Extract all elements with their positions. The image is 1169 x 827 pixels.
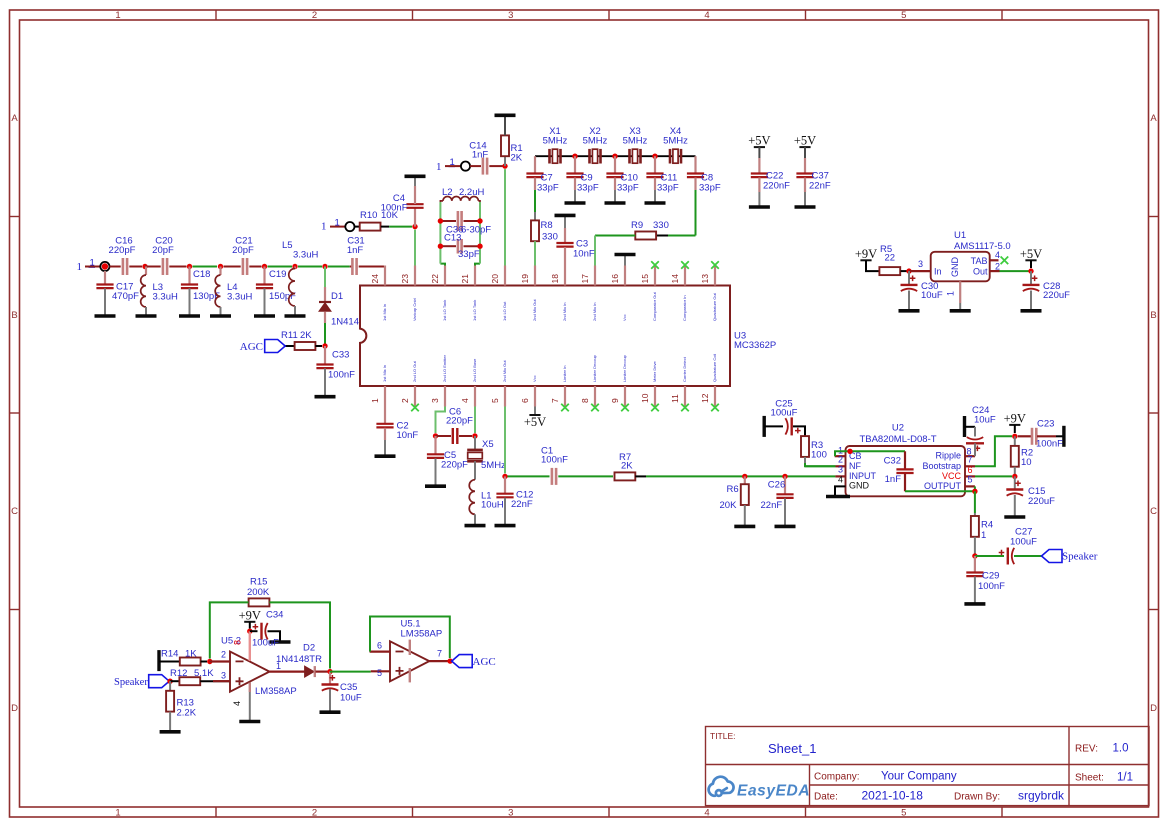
svg-text:1: 1 [77,261,83,273]
svg-text:2: 2 [312,808,317,819]
U3 pin 8 [594,386,596,407]
wire pin1 hook to C32 [835,451,905,456]
svg-text:R15: R15 [250,577,267,588]
svg-text:10: 10 [1021,457,1032,468]
U3 pin 5 [504,386,506,407]
capacitor C7 33pF [534,156,536,173]
node junction [322,343,327,348]
svg-text:5: 5 [901,808,906,819]
svg-text:Bootstrap: Bootstrap [922,461,961,471]
svg-text:Quadrature Coil: Quadrature Coil [712,354,717,382]
svg-text:18: 18 [550,274,560,284]
svg-text:B: B [1150,310,1156,321]
svg-text:AMS1117-5.0: AMS1117-5.0 [954,241,1011,252]
svg-text:3: 3 [918,259,923,269]
svg-text:10uH: 10uH [481,500,504,511]
svg-text:11: 11 [670,394,680,403]
U2 pin 2 NF [835,465,845,467]
resistor R1 2K [504,156,506,166]
wire [316,670,331,672]
wire [489,165,505,167]
wire [470,165,481,167]
svg-text:330: 330 [653,220,669,231]
svg-text:10: 10 [640,393,650,403]
svg-text:C13: C13 [444,233,461,244]
capacitor C4 100nF [414,208,416,226]
svg-text:MC3362P: MC3362P [734,340,776,351]
capacitor C29 100nF [974,556,976,572]
capacitor C5 220pF [434,436,436,454]
svg-text:12: 12 [700,393,710,403]
svg-text:3: 3 [508,10,513,21]
U2 pin 7 Bootstrap [965,465,975,467]
node junction [322,264,327,269]
svg-text:220pF: 220pF [446,416,473,427]
U2 pin 8 Ripple [965,455,975,457]
svg-text:Sheet_1: Sheet_1 [768,741,816,756]
svg-text:NF: NF [849,461,861,471]
node junction [438,244,443,249]
no-connect pins 15 14 13 [651,261,659,269]
svg-text:33pF: 33pF [458,249,480,260]
svg-text:20K: 20K [720,500,738,511]
wire crystal ladder [535,155,696,157]
capacitor C22 220nF [758,147,760,158]
svg-text:100nF: 100nF [978,581,1005,592]
net flag AGC (output) [452,655,473,668]
capacitor C37 22nF [804,147,806,158]
node junction [612,154,617,159]
svg-text:5MHz: 5MHz [481,460,506,471]
resistor R3 100 [801,436,809,457]
node junction [906,268,911,273]
inductor L2 2.2uH [440,201,443,202]
svg-text:R6: R6 [727,484,739,495]
svg-text:+5V: +5V [1020,247,1042,261]
svg-text:2K: 2K [621,461,633,472]
U3 pin 2 [414,386,416,407]
capacitor C6 220pF [436,435,452,437]
U3 pin 11 [684,386,686,407]
wire output to R4 [974,491,976,513]
svg-text:24: 24 [370,274,380,284]
svg-text:4: 4 [460,398,470,403]
capacitor C1 100nF [551,468,554,485]
svg-text:6-30pF: 6-30pF [461,225,491,236]
power +5V [799,146,810,148]
wire [328,266,350,268]
U5.1 pin 6 feedback [370,650,390,652]
svg-text:C: C [1150,506,1157,517]
svg-text:3: 3 [838,465,843,475]
svg-text:100nF: 100nF [381,203,408,214]
svg-text:Speaker: Speaker [1062,551,1098,563]
svg-text:+9V: +9V [855,247,877,261]
svg-text:Varicap Cntrl: Varicap Cntrl [412,298,417,321]
node junction [1012,434,1017,439]
svg-text:2nd Mix Out: 2nd Mix Out [502,360,507,382]
svg-text:C34: C34 [266,610,283,621]
node junction [447,658,452,663]
svg-text:LM358AP: LM358AP [401,629,443,640]
svg-text:16: 16 [610,274,620,284]
svg-text:20pF: 20pF [232,245,254,256]
svg-text:7: 7 [968,455,973,465]
IC U2 TBA820ML-D08-T [846,446,966,496]
wire feedback [210,602,249,658]
svg-text:LM358AP: LM358AP [255,686,297,697]
U3 pin 23 [414,266,416,286]
wire pin 4 [474,407,476,434]
svg-text:1st Mix In: 1st Mix In [382,304,387,321]
U2 pin 5 OUTPUT [965,485,975,487]
svg-text:Vcc: Vcc [622,314,627,321]
svg-text:L2: L2 [442,187,453,198]
svg-text:5MHz: 5MHz [623,136,648,147]
svg-text:R10: R10 [360,210,377,221]
ground [104,288,106,316]
svg-text:INPUT: INPUT [849,471,877,481]
wire pin 6 [975,475,1012,477]
U3 pin 10 [654,386,656,407]
svg-text:Carrier Detect: Carrier Detect [682,356,687,382]
svg-text:U2: U2 [892,423,904,434]
svg-text:1nF: 1nF [347,245,364,256]
wire pin7 to +9V [975,436,1012,466]
svg-text:Drawn By:: Drawn By: [954,792,1000,803]
svg-text:6: 6 [968,465,973,475]
ground [654,190,656,203]
svg-text:33pF: 33pF [657,183,679,194]
wire [330,226,345,228]
U3 pin 21 [474,266,476,286]
svg-text:D1: D1 [331,291,343,302]
IC U3 MC3362P [360,286,730,387]
capacitor C12 22nF [504,476,506,493]
svg-text:2.2uH: 2.2uH [459,187,484,198]
svg-text:5MHz: 5MHz [663,136,688,147]
power +9V [860,259,871,261]
U3 pin 15 [654,266,656,286]
ground [504,115,506,135]
svg-text:33pF: 33pF [699,183,721,194]
node junction [433,433,438,438]
svg-text:R8: R8 [541,220,553,231]
svg-text:9: 9 [610,398,620,403]
svg-text:5: 5 [968,475,973,485]
svg-text:Date:: Date: [814,792,838,803]
svg-text:19: 19 [520,274,530,284]
crystal X4 5MHz [669,149,672,164]
svg-text:B: B [11,310,17,321]
wire [1000,270,1032,272]
ground [804,192,806,207]
svg-text:R14: R14 [161,649,178,660]
U1 pin 2 Out [990,270,1000,272]
U3 pin 9 [624,386,626,407]
diode D1 1N4148TR [324,267,326,288]
inductor L5 3.3uH [294,267,296,269]
ground [320,710,341,714]
capacitor C25 100uF [763,416,766,437]
svg-text:1: 1 [115,10,120,21]
inductor L4 3.3uH [219,267,221,276]
svg-text:EasyEDA: EasyEDA [737,783,810,800]
wire [224,266,241,268]
svg-text:15: 15 [640,274,650,284]
svg-text:A: A [1150,113,1157,124]
wire [145,266,161,268]
wire [129,266,142,268]
wire [866,260,879,271]
U3 pin 19 [534,266,536,286]
svg-text:Your Company: Your Company [881,771,957,783]
svg-text:U1: U1 [954,230,966,241]
svg-text:14: 14 [670,274,680,284]
EasyEDA logo [709,777,734,796]
svg-text:10uF: 10uF [340,693,362,704]
svg-text:17: 17 [580,274,590,284]
power +5V pin 6 [534,407,536,416]
svg-text:R11: R11 [281,330,298,341]
wire [193,266,218,268]
svg-text:REV:: REV: [1075,744,1098,755]
node junction [1012,474,1017,479]
ground [959,303,961,311]
open pin P2 [345,222,354,231]
U3 pin 14 [684,266,686,286]
resistor R4 1 [974,513,976,516]
ground [425,484,446,488]
svg-text:1nF: 1nF [472,150,489,161]
svg-text:TITLE:: TITLE: [710,731,736,741]
svg-text:33pF: 33pF [537,183,559,194]
node junction [438,218,443,223]
node junction [292,264,297,269]
ground [220,307,222,316]
svg-text:C26: C26 [768,480,785,491]
svg-text:A: A [11,113,18,124]
crystal X1 5MHz [548,149,551,164]
ground [414,176,416,186]
svg-text:2K: 2K [511,153,523,164]
ground [775,525,796,529]
capacitor C14 1nF [482,158,485,175]
power +5V [1025,259,1036,261]
wire [210,660,230,662]
ground [614,190,616,203]
svg-text:22nF: 22nF [511,499,533,510]
resistor R2 10 [1014,436,1016,445]
svg-text:4: 4 [838,475,843,485]
svg-text:D2: D2 [303,643,315,654]
svg-text:1.0: 1.0 [1113,743,1129,755]
node junction [782,474,787,479]
ground [384,440,386,456]
svg-text:13: 13 [700,274,710,284]
U3 pin 18 [564,266,566,286]
svg-text:6: 6 [377,641,382,651]
wire [558,475,613,477]
svg-text:2: 2 [221,650,226,660]
U3 pin 20 [504,266,506,286]
svg-text:7: 7 [550,398,560,403]
wire [169,266,186,268]
svg-text:100uF: 100uF [771,408,798,419]
svg-text:R4: R4 [981,520,993,531]
capacitor C23 100nF [1018,435,1032,437]
svg-text:2: 2 [995,262,1000,272]
resistor R13 2.2K [169,681,171,691]
svg-text:D: D [1150,703,1157,714]
U3 pin 17 [594,266,596,286]
svg-text:Company:: Company: [814,772,860,783]
op-amp U5.2 LM358AP [230,652,270,692]
svg-text:2K: 2K [300,330,312,341]
title block [706,727,1150,806]
capacitor C11 33pF [654,156,656,173]
capacitor C19 150pF [263,267,265,285]
U2 pin 1 CB [835,455,846,457]
svg-text:+5V: +5V [748,134,770,148]
svg-text:2: 2 [312,10,317,21]
capacitor C20 20pF [162,258,165,275]
ground [744,505,746,526]
svg-text:220nF: 220nF [763,181,790,192]
U2 pin 6 VCC [965,475,975,477]
node junction [187,264,192,269]
IC U1 AMS1117-5.0 [931,252,990,281]
svg-text:Comparator Out: Comparator Out [652,291,657,321]
wire [974,486,976,491]
diode D2 1N4148TR [305,666,315,677]
U3 pin 22 [444,266,446,286]
svg-text:8: 8 [580,398,590,403]
svg-text:X5: X5 [482,439,494,450]
node junction [572,154,577,159]
svg-text:100nF: 100nF [328,370,355,381]
U3 pin 13 [714,266,716,286]
svg-text:1st LO Tank: 1st LO Tank [472,300,477,321]
svg-text:Quadrature Out: Quadrature Out [712,292,717,321]
svg-text:5: 5 [377,668,382,678]
capacitor C3 10nF [564,215,566,228]
svg-text:2: 2 [400,398,410,403]
svg-text:100uF: 100uF [1010,537,1037,548]
wire pin21 jog [475,264,480,266]
wire [635,475,646,477]
svg-text:GND: GND [950,257,960,278]
svg-text:Limiter Decoup: Limiter Decoup [622,354,627,382]
svg-text:3.3uH: 3.3uH [153,292,178,303]
svg-text:33pF: 33pF [617,183,639,194]
wire [805,465,835,467]
svg-text:22nF: 22nF [761,500,783,511]
svg-text:2nd LO Out: 2nd LO Out [412,360,417,382]
svg-text:200K: 200K [247,587,270,598]
node junction [142,264,147,269]
svg-text:Vcc: Vcc [532,375,537,382]
capacitor C33 100nF [324,346,326,364]
op-amp U5.1 LM358AP [390,641,429,681]
U3 pin 1 [384,386,386,407]
capacitor C31 1nF [351,258,354,275]
capacitor C21 20pF [242,258,245,275]
svg-text:1: 1 [436,161,442,173]
capacitor C16 220pF [122,258,125,275]
crystal X2 5MHz [588,149,591,164]
svg-text:220uF: 220uF [1043,290,1070,301]
open pin P1 [100,262,109,271]
svg-text:22nF: 22nF [809,181,831,192]
ground [189,288,191,316]
wire [355,226,360,228]
svg-text:C32: C32 [884,456,901,467]
wire [909,270,931,272]
node junction [502,474,507,479]
svg-text:100uF: 100uF [252,638,279,649]
wire output [270,670,305,672]
capacitor C28 220uF [1030,271,1032,285]
svg-text:C18: C18 [193,269,210,280]
node junction [502,163,507,168]
svg-text:R9: R9 [631,220,643,231]
svg-text:10uF: 10uF [974,415,996,426]
svg-text:33pF: 33pF [577,183,599,194]
svg-text:C19: C19 [269,269,286,280]
ground [1021,309,1042,313]
wire [695,190,697,236]
capacitor C18 130pF [188,267,190,285]
open pin P3 [461,162,470,171]
svg-text:In: In [934,267,942,277]
wire to pin 17 [594,236,596,266]
svg-text:+5V: +5V [794,134,816,148]
wire [201,661,207,663]
wire [445,165,461,167]
svg-text:GND: GND [849,481,870,491]
svg-text:OUTPUT: OUTPUT [924,481,962,491]
ground [324,368,326,396]
svg-text:100nF: 100nF [1036,439,1063,450]
svg-text:20: 20 [490,274,500,284]
svg-text:Limiter In: Limiter In [562,366,567,382]
svg-text:21: 21 [460,274,470,284]
svg-text:5MHz: 5MHz [543,136,568,147]
crystal X5 5MHz [474,436,476,450]
svg-text:3.3uH: 3.3uH [293,250,318,261]
svg-text:220pF: 220pF [109,245,136,256]
node junction [412,224,417,229]
trimmer capacitor C36 6-30pF [440,220,456,222]
wire output [429,660,451,662]
ground [145,307,147,316]
svg-text:C23: C23 [1037,419,1054,430]
power +9V U5.2 [244,621,255,623]
wire pin 5 [504,407,506,474]
wire [298,266,322,268]
capacitor C32 1nF [904,451,906,469]
svg-text:Sheet:: Sheet: [1075,773,1104,784]
wire pin 3 [436,407,446,434]
svg-text:1: 1 [321,221,327,233]
capacitor C34 100uF [250,630,258,632]
inductor L1 10uH [474,461,476,480]
svg-text:10nF: 10nF [397,430,419,441]
svg-text:220uF: 220uF [1028,496,1055,507]
crystal X3 5MHz [628,149,631,164]
svg-text:6: 6 [520,398,530,403]
